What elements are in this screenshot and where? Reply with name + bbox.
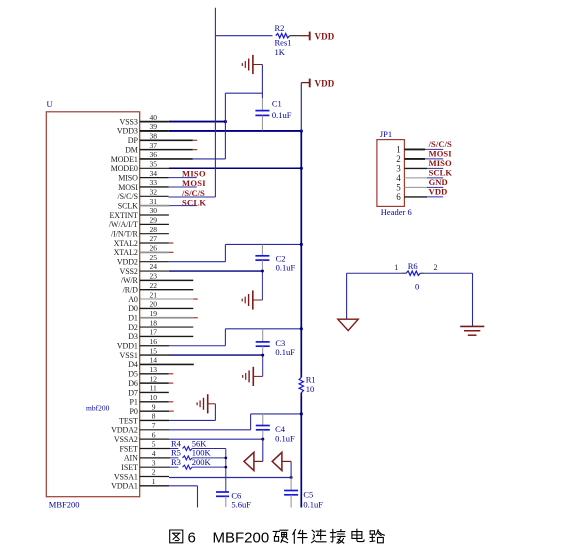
capacitor C3 0.1uF bbox=[256, 329, 296, 377]
svg-text:MISO: MISO bbox=[182, 168, 206, 178]
svg-text:XTAL2: XTAL2 bbox=[114, 248, 138, 257]
wire top gnd down and left to pin40/pin36 riser bbox=[225, 65, 262, 160]
wire R6 pin2 down to gnd bbox=[472, 273, 474, 326]
svg-text:VDDA1: VDDA1 bbox=[111, 482, 138, 491]
svg-text:17: 17 bbox=[150, 328, 158, 337]
svg-text:15: 15 bbox=[150, 346, 158, 355]
svg-text:34: 34 bbox=[150, 169, 158, 178]
svg-text:VDDA2: VDDA2 bbox=[111, 426, 138, 435]
svg-text:6: 6 bbox=[396, 192, 401, 202]
svg-text:MBF200: MBF200 bbox=[49, 500, 80, 510]
svg-text:ISET: ISET bbox=[121, 463, 138, 472]
svg-text:JP1: JP1 bbox=[380, 129, 392, 139]
svg-text:VDD1: VDD1 bbox=[117, 342, 138, 351]
wire VDDA1 pin1 stub down bbox=[169, 486, 197, 508]
svg-text:MOSI: MOSI bbox=[182, 178, 206, 188]
svg-text:10: 10 bbox=[150, 393, 158, 402]
svg-text:mbf200: mbf200 bbox=[86, 404, 110, 413]
wire /S/C/S vertical riser to R2 bbox=[214, 8, 216, 197]
ground at C3 bbox=[243, 367, 263, 386]
svg-text:VSS1: VSS1 bbox=[120, 351, 138, 360]
pin 36 MODE1 bbox=[111, 150, 193, 164]
svg-text:2: 2 bbox=[434, 263, 438, 272]
pin 5 FSET bbox=[120, 440, 170, 454]
svg-text:MISO: MISO bbox=[118, 173, 138, 182]
pin 35 MODE0 bbox=[111, 160, 169, 174]
svg-text:AIN: AIN bbox=[124, 454, 138, 463]
svg-text:DM: DM bbox=[125, 145, 138, 154]
resistor R1 10 bbox=[299, 374, 316, 397]
svg-text:5: 5 bbox=[152, 440, 156, 449]
pin 15 VSS1 bbox=[120, 346, 169, 360]
svg-text:20: 20 bbox=[150, 300, 158, 309]
svg-text:/I/N/T/R: /I/N/T/R bbox=[111, 229, 139, 238]
svg-text:0: 0 bbox=[415, 282, 419, 292]
power port VDD at rail bbox=[301, 79, 334, 89]
svg-text:1K: 1K bbox=[275, 47, 286, 57]
pin 21 A0 bbox=[128, 290, 198, 304]
power port arrow at VSSA2 bbox=[244, 452, 263, 470]
pin 1 VDDA1 bbox=[111, 477, 169, 491]
svg-text:7: 7 bbox=[152, 421, 156, 430]
capacitor C6 5.6uF bbox=[216, 491, 251, 510]
svg-text:3: 3 bbox=[396, 163, 401, 173]
pin 5 JP1 net GND bbox=[396, 177, 448, 192]
pin 4 JP1 net SCLK bbox=[396, 168, 452, 183]
svg-text:XTAL2: XTAL2 bbox=[114, 239, 138, 248]
svg-text:P1: P1 bbox=[130, 398, 138, 407]
svg-text:C4: C4 bbox=[275, 424, 286, 434]
svg-text:D7: D7 bbox=[128, 388, 138, 397]
svg-text:35: 35 bbox=[150, 160, 158, 169]
power port arrow at VSSA1 bbox=[272, 452, 291, 477]
resistor R2 Res1 1K bbox=[215, 23, 300, 57]
svg-text:/S/C/S: /S/C/S bbox=[117, 192, 137, 201]
wire MODE1 pin36 to gnd vertical bbox=[193, 158, 226, 160]
ground bars right bbox=[460, 326, 484, 335]
svg-text:23: 23 bbox=[150, 272, 158, 281]
pin 40 VSS3 bbox=[120, 113, 169, 127]
svg-text:38: 38 bbox=[150, 131, 158, 140]
pin 11 D7 bbox=[128, 384, 169, 398]
pin 23 /W/R bbox=[121, 272, 193, 286]
pin 2 VSSA1 bbox=[114, 468, 169, 482]
capacitor C1 0.1uF bbox=[255, 98, 291, 130]
svg-text:37: 37 bbox=[150, 141, 158, 150]
svg-text:VDD2: VDD2 bbox=[117, 258, 138, 267]
resistor R6 0 bbox=[347, 261, 473, 292]
svg-text:26: 26 bbox=[150, 244, 158, 253]
pin 19 D1 bbox=[128, 309, 198, 323]
pin 13 D5 bbox=[128, 365, 173, 379]
pin 32 /S/C/S bbox=[117, 188, 168, 202]
svg-text:/W/R: /W/R bbox=[121, 276, 139, 285]
ground at C2 bbox=[242, 290, 262, 309]
svg-text:24: 24 bbox=[150, 262, 158, 271]
capacitor C4 0.1uF bbox=[256, 414, 295, 444]
wire TEST pin8 to gnd bbox=[169, 404, 215, 421]
svg-text:D2: D2 bbox=[128, 323, 138, 332]
pin 25 VDD2 bbox=[117, 253, 169, 267]
pin 10 P1 bbox=[130, 393, 174, 407]
resistor R5 100K bbox=[170, 448, 226, 460]
pin 34 MISO bbox=[118, 169, 168, 183]
pin 12 D6 bbox=[128, 374, 173, 388]
svg-text:39: 39 bbox=[150, 122, 158, 131]
svg-text:GND: GND bbox=[429, 177, 448, 187]
svg-text:28: 28 bbox=[150, 225, 158, 234]
svg-text:6: 6 bbox=[188, 530, 196, 547]
pin 30 EXTINT bbox=[110, 206, 169, 220]
wire VSSA2 down to power port bbox=[262, 439, 264, 461]
svg-text:D4: D4 bbox=[128, 360, 138, 369]
svg-text:12: 12 bbox=[150, 374, 158, 383]
wire VDD rail vertical bbox=[300, 83, 302, 508]
svg-text:36: 36 bbox=[150, 150, 158, 159]
pin 31 SCLK bbox=[118, 197, 169, 211]
svg-text:VSSA1: VSSA1 bbox=[114, 472, 138, 481]
svg-text:2: 2 bbox=[152, 468, 156, 477]
svg-text:16: 16 bbox=[150, 337, 158, 346]
net label MISO bbox=[182, 168, 206, 178]
wire FSET/AIN/ISET common to C6 bbox=[224, 449, 227, 493]
svg-text:0.1uF: 0.1uF bbox=[275, 347, 295, 357]
svg-text:22: 22 bbox=[150, 281, 158, 290]
pin 17 D3 bbox=[128, 328, 193, 342]
pin 3 JP1 net MISO bbox=[396, 158, 452, 173]
wire VSSA2 pin6 to C4 bbox=[169, 438, 264, 441]
wire net MOSI pin33 bbox=[169, 186, 197, 188]
wire VDD3 pin39 to VDD rail bbox=[169, 129, 303, 132]
pin 16 VDD1 bbox=[117, 337, 169, 351]
svg-text:1: 1 bbox=[152, 477, 156, 486]
pin 2 JP1 net MOSI bbox=[396, 149, 452, 164]
pin 6 JP1 net VDD bbox=[396, 187, 447, 202]
svg-text:/W/A/I/T: /W/A/I/T bbox=[109, 220, 138, 229]
wire R6 pin1 down to earth bbox=[346, 273, 348, 319]
svg-text:5.6uF: 5.6uF bbox=[231, 500, 251, 510]
pin 24 VSS2 bbox=[120, 262, 169, 276]
IC U MBF200 component body bbox=[46, 99, 139, 510]
svg-text:/S/C/S: /S/C/S bbox=[181, 188, 205, 198]
svg-text:VSS3: VSS3 bbox=[120, 117, 138, 126]
svg-text:40: 40 bbox=[150, 113, 158, 122]
svg-text:27: 27 bbox=[150, 234, 158, 243]
pin 18 D2 bbox=[128, 318, 193, 332]
svg-text:1: 1 bbox=[396, 144, 401, 154]
svg-text:D0: D0 bbox=[128, 304, 138, 313]
svg-text:D1: D1 bbox=[128, 314, 138, 323]
wire VDDA2 pin7 riser to C4 rail bbox=[169, 412, 303, 430]
svg-text:29: 29 bbox=[150, 216, 158, 225]
svg-text:4: 4 bbox=[152, 449, 156, 458]
svg-text:21: 21 bbox=[150, 290, 158, 299]
net label SCLK bbox=[182, 197, 206, 207]
svg-text:D5: D5 bbox=[128, 370, 138, 379]
wire VSS1 pin15 to C3 bbox=[169, 354, 264, 357]
svg-text:SCLK: SCLK bbox=[118, 201, 138, 210]
svg-text:0.1uF: 0.1uF bbox=[276, 262, 296, 272]
svg-text:6: 6 bbox=[152, 430, 156, 439]
svg-text:9: 9 bbox=[152, 402, 156, 411]
pin 6 VSSA2 bbox=[114, 430, 169, 444]
wire VSS2 pin24 to C2 bbox=[169, 270, 264, 273]
svg-text:8: 8 bbox=[152, 412, 156, 421]
pin 1 JP1 net /S/C/S bbox=[396, 139, 452, 154]
pin 26 XTAL2 bbox=[114, 244, 174, 258]
svg-text:SCLK: SCLK bbox=[429, 168, 453, 178]
svg-text:R2: R2 bbox=[275, 23, 285, 33]
pin 8 TEST bbox=[119, 412, 169, 426]
svg-text:0.1uF: 0.1uF bbox=[303, 500, 323, 510]
svg-text:D3: D3 bbox=[128, 332, 138, 341]
svg-text:MISO: MISO bbox=[429, 158, 452, 168]
ground top (VSS3/MODE1 net) bbox=[242, 55, 262, 74]
pin 20 D0 bbox=[128, 300, 193, 314]
svg-text:C1: C1 bbox=[272, 98, 282, 108]
svg-text:R1: R1 bbox=[306, 375, 316, 385]
power port VDD at R2 bbox=[301, 32, 335, 42]
wire MODE0 pin35 to VDD rail bbox=[169, 167, 303, 170]
svg-text:14: 14 bbox=[150, 356, 158, 365]
svg-text:R3: R3 bbox=[171, 457, 181, 467]
svg-text:Res1: Res1 bbox=[275, 38, 292, 48]
pin 38 DP bbox=[128, 131, 198, 145]
wire VDD2 pin25 riser to C2 rail bbox=[169, 243, 303, 262]
net label /S/C/S bbox=[181, 188, 205, 198]
svg-text:0.1uF: 0.1uF bbox=[275, 434, 295, 444]
svg-text:/S/C/S: /S/C/S bbox=[428, 139, 452, 149]
svg-text:2: 2 bbox=[396, 154, 401, 164]
pin 39 VDD3 bbox=[117, 122, 169, 136]
svg-text:R6: R6 bbox=[408, 261, 418, 271]
svg-text:VSS2: VSS2 bbox=[120, 267, 138, 276]
svg-text:25: 25 bbox=[150, 253, 158, 262]
svg-text:VDD: VDD bbox=[315, 79, 335, 89]
svg-text:U: U bbox=[47, 99, 53, 109]
wire VDD1 pin16 riser to C3 rail bbox=[169, 327, 303, 346]
wire net SCLK pin31 bbox=[169, 205, 197, 207]
svg-text:SCLK: SCLK bbox=[182, 197, 206, 207]
svg-text:DP: DP bbox=[128, 136, 139, 145]
pin 14 D4 bbox=[128, 356, 194, 370]
svg-text:33: 33 bbox=[150, 178, 158, 187]
pin 4 AIN bbox=[124, 449, 170, 463]
wire VSS3 pin40 to top-gnd vertical bbox=[169, 120, 227, 123]
svg-text:VDD: VDD bbox=[315, 32, 335, 42]
svg-text:Header 6: Header 6 bbox=[381, 207, 412, 217]
wire net /S/C/S pin32 to R2 pull-up bbox=[169, 196, 216, 198]
pin 22 /R/D bbox=[123, 281, 194, 295]
svg-text:D6: D6 bbox=[128, 379, 138, 388]
svg-text:MODE0: MODE0 bbox=[111, 164, 138, 173]
svg-text:VSSA2: VSSA2 bbox=[114, 435, 138, 444]
svg-text:31: 31 bbox=[150, 197, 158, 206]
ground at TEST bbox=[197, 394, 215, 413]
svg-text:MOSI: MOSI bbox=[118, 183, 138, 192]
net label MOSI bbox=[182, 178, 206, 188]
svg-text:30: 30 bbox=[150, 206, 158, 215]
svg-text:200K: 200K bbox=[192, 457, 212, 467]
svg-text:13: 13 bbox=[150, 365, 158, 374]
svg-text:FSET: FSET bbox=[120, 444, 138, 453]
ground triangle (earth) left bbox=[338, 319, 358, 330]
pin 28 /I/N/T/R bbox=[111, 225, 169, 239]
svg-text:TEST: TEST bbox=[119, 416, 138, 425]
svg-text:VDD: VDD bbox=[429, 187, 448, 197]
svg-text:32: 32 bbox=[150, 188, 158, 197]
svg-text:1: 1 bbox=[394, 263, 398, 272]
svg-text:19: 19 bbox=[150, 309, 158, 318]
wire VSSA1 pin2 to C5 bbox=[169, 476, 293, 479]
svg-text:P0: P0 bbox=[130, 407, 138, 416]
svg-text:5: 5 bbox=[396, 182, 401, 192]
resistor R3 200K bbox=[170, 457, 226, 469]
svg-text:MODE1: MODE1 bbox=[111, 155, 138, 164]
connector JP1 Header 6 bbox=[377, 129, 412, 217]
svg-text:18: 18 bbox=[150, 318, 158, 327]
capacitor C5 0.1uF bbox=[284, 478, 323, 510]
svg-text:MBF200: MBF200 bbox=[213, 530, 270, 547]
svg-text:MOSI: MOSI bbox=[429, 149, 453, 159]
svg-text:EXTINT: EXTINT bbox=[110, 211, 138, 220]
caption: figure 6 MBF200 hardware connection circuit bbox=[170, 529, 385, 546]
svg-text:10: 10 bbox=[306, 384, 315, 394]
svg-text:0.1uF: 0.1uF bbox=[272, 110, 292, 120]
svg-text:/R/D: /R/D bbox=[123, 286, 138, 295]
pin 37 DM bbox=[125, 141, 197, 155]
pin 29 /W/A/I/T bbox=[109, 216, 169, 230]
pin 27 XTAL2 bbox=[114, 234, 174, 248]
svg-text:3: 3 bbox=[152, 458, 156, 467]
svg-text:11: 11 bbox=[150, 384, 157, 393]
pin 33 MOSI bbox=[118, 178, 168, 192]
wire net MISO pin34 bbox=[169, 177, 197, 179]
svg-text:A0: A0 bbox=[128, 295, 138, 304]
pin 3 ISET bbox=[121, 458, 170, 472]
pin 9 P0 bbox=[130, 402, 174, 416]
svg-text:VDD3: VDD3 bbox=[117, 127, 138, 136]
svg-text:4: 4 bbox=[396, 173, 401, 183]
svg-text:C5: C5 bbox=[303, 490, 313, 500]
pin 7 VDDA2 bbox=[111, 421, 169, 435]
capacitor C2 0.1uF bbox=[255, 244, 295, 300]
resistor R4 56K bbox=[170, 438, 226, 450]
